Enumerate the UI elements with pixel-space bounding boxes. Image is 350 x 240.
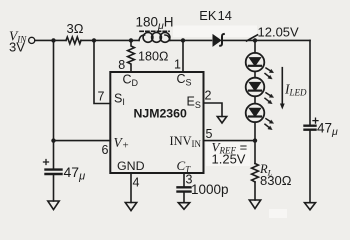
whiteout patch bottom — [269, 209, 287, 218]
wire right column lower — [309, 131, 311, 203]
inductor L1 180uH — [139, 33, 170, 43]
node junction left column — [51, 38, 55, 42]
LED D4 light arrows — [265, 119, 274, 130]
ground RL — [249, 200, 260, 209]
current arrow head — [280, 104, 285, 110]
input terminal circle — [29, 37, 35, 43]
resistor RL 830ohm — [252, 164, 259, 183]
wire LED2-LED3 — [254, 96, 256, 103]
svg-text:830Ω: 830Ω — [260, 173, 292, 188]
node junction LED tap — [253, 38, 257, 42]
svg-text:1.25V: 1.25V — [212, 152, 246, 167]
svg-text:1: 1 — [174, 58, 181, 72]
whiteout patch above top wire — [173, 26, 257, 38]
capacitor C1 47u plus sign — [44, 160, 49, 165]
wire pin6 — [54, 140, 111, 142]
svg-text:GND: GND — [117, 159, 145, 173]
wire pin1 — [182, 40, 184, 72]
LED D2 — [246, 53, 265, 72]
LED D4 — [246, 104, 265, 123]
wire pin2 — [204, 103, 223, 117]
wire cap to ground left — [53, 175, 55, 201]
wire pin4 — [130, 173, 132, 203]
inductor core dashed line — [140, 30, 169, 32]
diode D1 — [213, 35, 221, 46]
svg-text:180Ω: 180Ω — [138, 50, 168, 64]
wire C3 to ground — [183, 193, 185, 203]
svg-text:12.05V: 12.05V — [258, 25, 300, 40]
resistor 3ohm — [66, 37, 81, 44]
svg-text:3V: 3V — [9, 40, 25, 55]
LED D2 light arrows — [265, 68, 274, 79]
wire inductor to diode — [170, 39, 212, 41]
ground left — [48, 201, 59, 210]
svg-text:EK14: EK14 — [199, 8, 232, 23]
LED D3 light arrows — [265, 93, 274, 104]
wire diode to right corner — [224, 39, 311, 41]
arrow pin2 down — [217, 117, 226, 124]
capacitor C3 1000p plates — [178, 187, 191, 191]
svg-text:NJM2360: NJM2360 — [134, 107, 187, 121]
svg-text:4: 4 — [133, 176, 140, 190]
node junction pin5 LED — [253, 138, 257, 142]
diode cathode bar — [220, 34, 224, 46]
capacitor C1 47u plates — [46, 170, 62, 174]
IC U1 NJM2360 box — [110, 72, 203, 173]
wire LED chain top — [254, 40, 256, 52]
wire RL to ground — [254, 182, 256, 200]
node junction pin6 — [51, 138, 55, 142]
resistor 180ohm (pin 8 feed) — [128, 40, 135, 72]
whiteout patch behind VREF text — [206, 141, 250, 166]
ground right — [305, 203, 316, 210]
capacitor C2 47u plates — [305, 126, 316, 130]
capacitor C2 47u plus sign — [313, 118, 318, 123]
svg-text:1000p: 1000p — [191, 182, 229, 197]
wire terminal to 3ohm resistor — [35, 39, 66, 41]
svg-text:180μH: 180μH — [136, 15, 174, 33]
current arrow ILED — [281, 68, 283, 105]
node junction 180ohm tap — [129, 38, 133, 42]
wire 3ohm to inductor — [81, 39, 139, 41]
wire pin5 — [204, 140, 256, 142]
svg-text:3Ω: 3Ω — [67, 21, 84, 36]
wire pin3 — [183, 173, 185, 186]
ground pin4 — [125, 203, 136, 211]
ground pin3 — [178, 203, 189, 210]
svg-text:6: 6 — [102, 143, 109, 157]
LED D3 — [246, 78, 265, 97]
wire LED1-LED2 — [254, 72, 256, 78]
leader line 12.05V — [247, 35, 258, 41]
wire LED3 to RL — [254, 122, 256, 163]
node junction pin1 tap — [181, 38, 185, 42]
node junction pin7 branch — [92, 38, 96, 42]
svg-text:8: 8 — [118, 58, 125, 72]
svg-text:2: 2 — [205, 89, 212, 103]
wire right column — [309, 40, 311, 124]
svg-text:7: 7 — [98, 90, 105, 104]
wire pin7 branch — [94, 40, 110, 103]
wire left column top — [53, 40, 55, 168]
